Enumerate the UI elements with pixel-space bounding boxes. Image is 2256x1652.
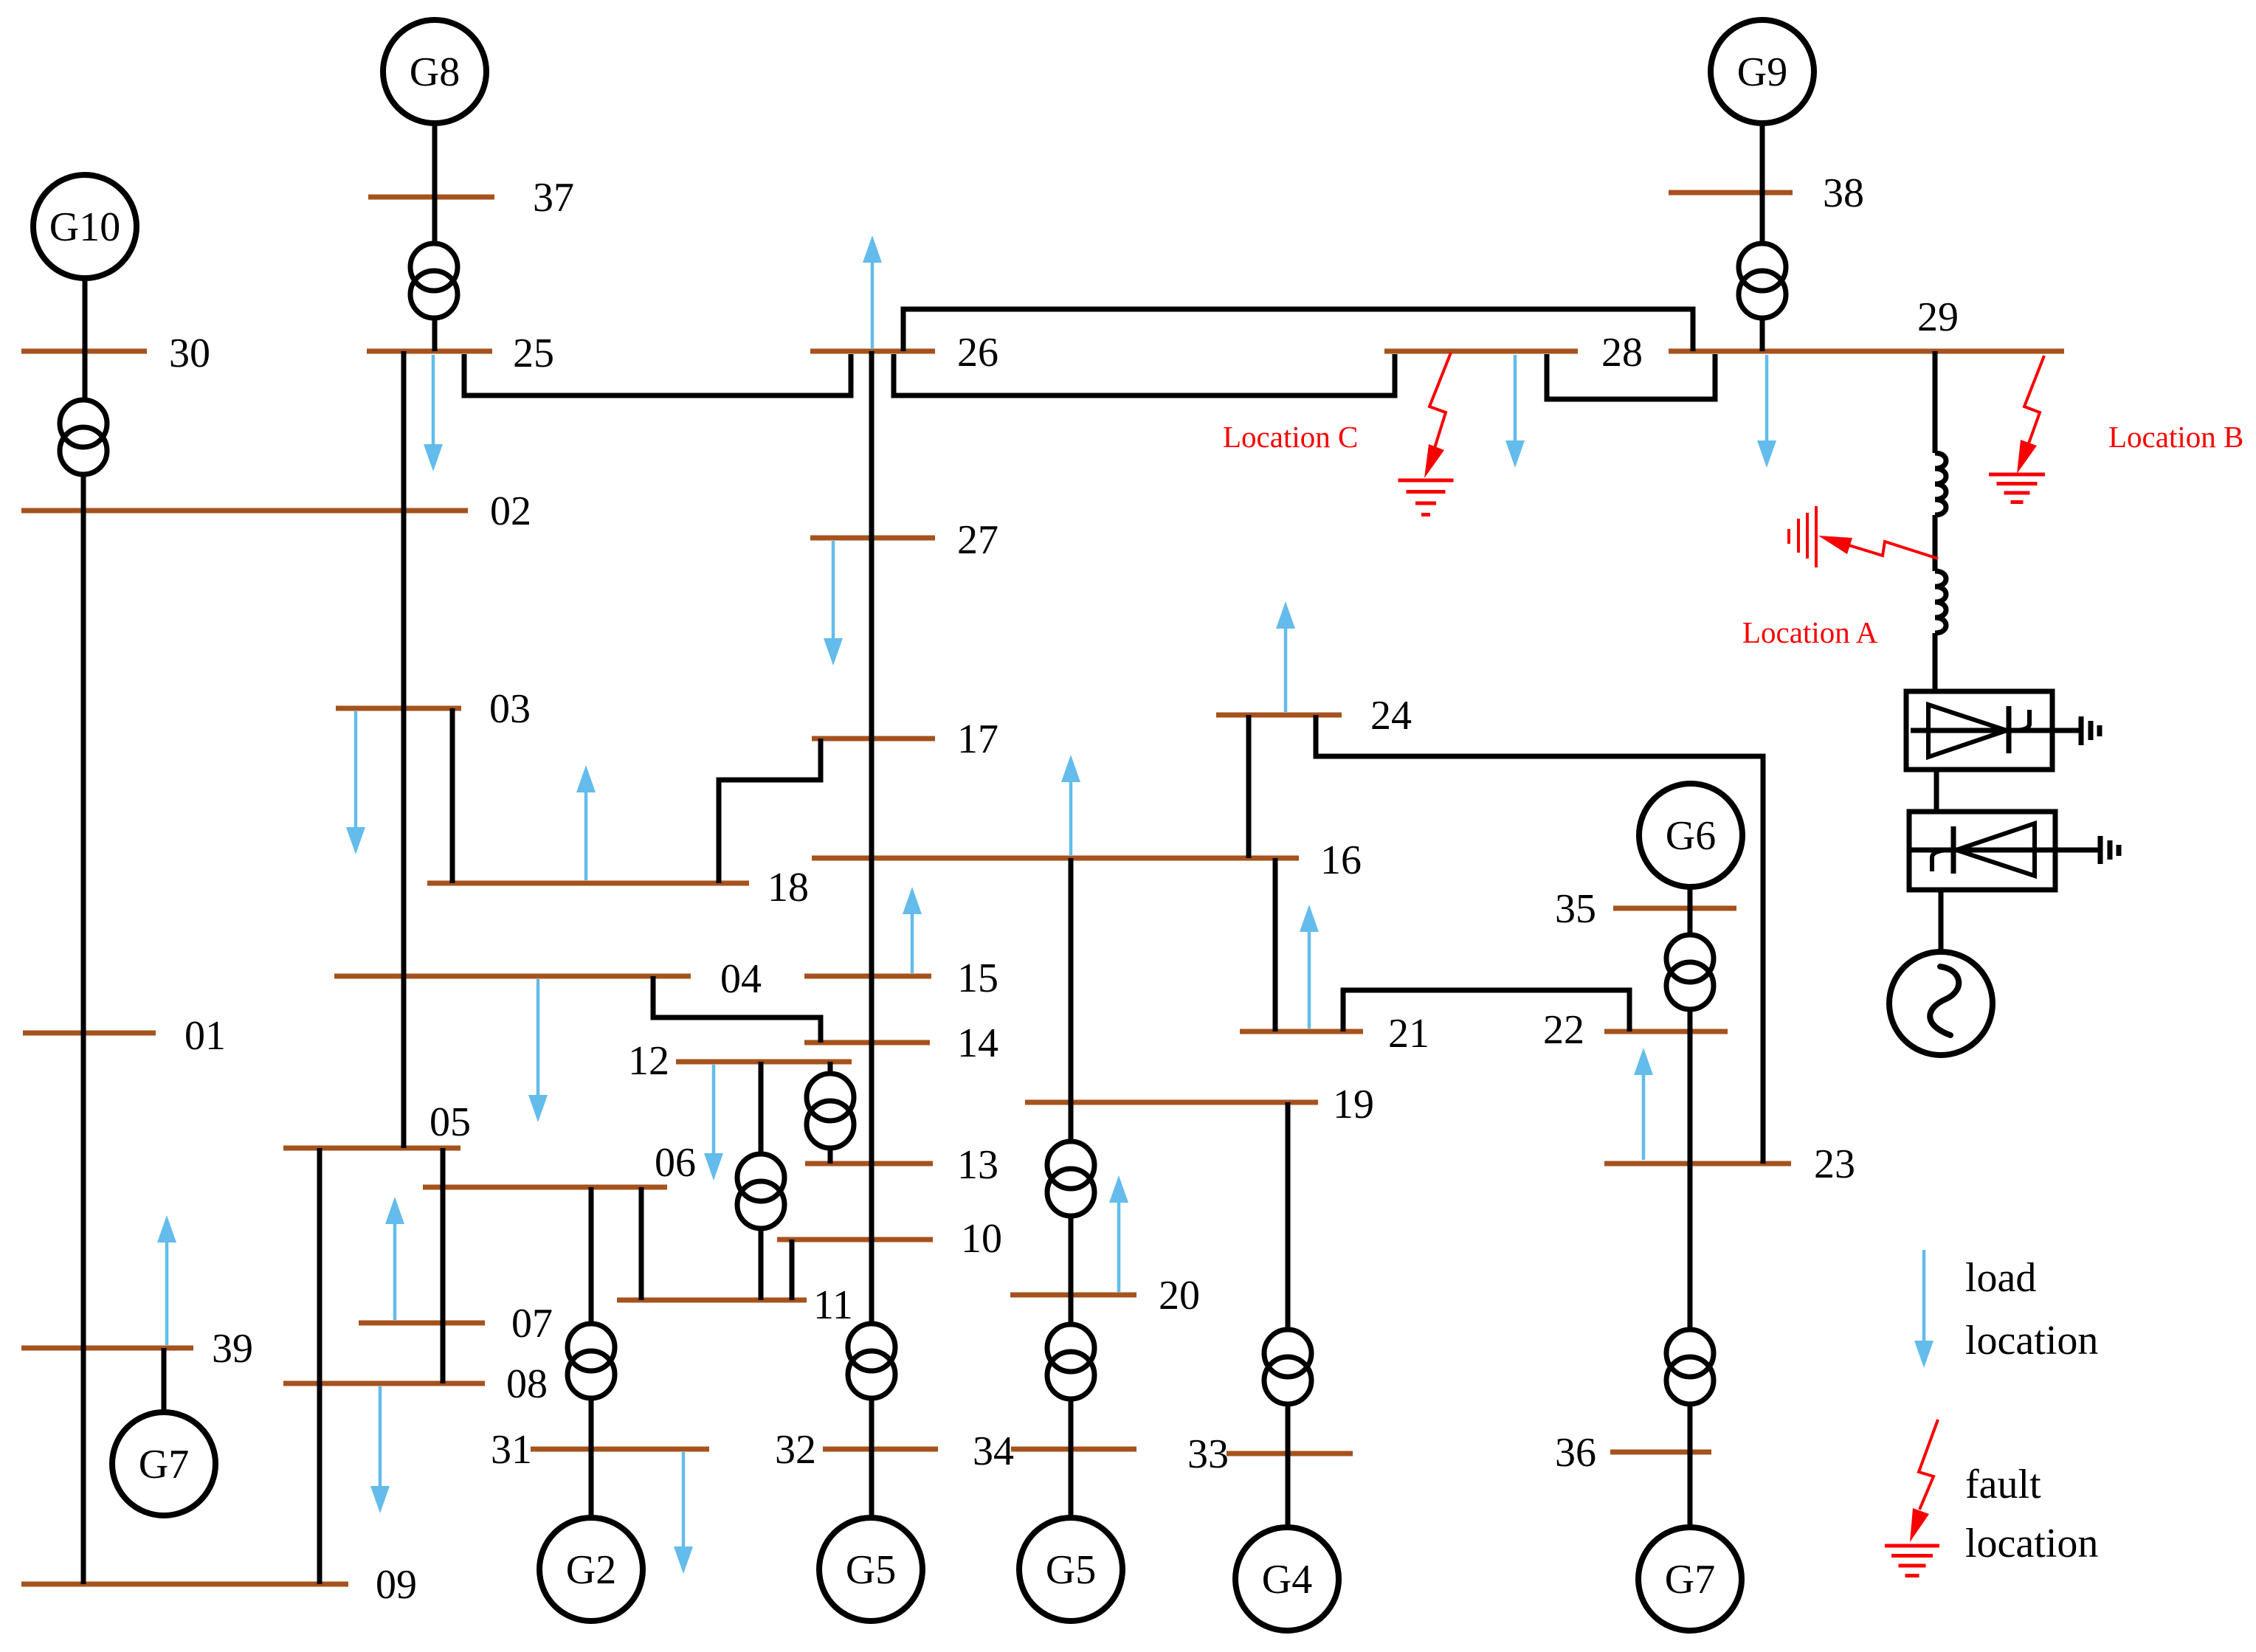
transformer T 12-13 (807, 1074, 854, 1148)
bus 29 (1669, 294, 2064, 351)
transformer T 35-22 (1666, 935, 1714, 1009)
svg-text:16: 16 (1320, 837, 1362, 883)
bus 24 (1216, 693, 1412, 739)
converter valve U2 (1909, 812, 2100, 890)
wire 21-22 (1343, 990, 1629, 1031)
bus 18 (427, 865, 809, 910)
wire 16-19-T-20 (1069, 858, 1074, 1325)
wire G6-35-22-23 chain (1688, 887, 1693, 1164)
load arrow bus03 (346, 711, 365, 854)
legend fault bolt (1910, 1420, 1938, 1542)
bus 30 (21, 331, 210, 376)
wire bus26-27-17-15-14-13-10 trunk (869, 351, 875, 1324)
wire 12-T-13 (828, 1062, 833, 1164)
wire 05-09 (317, 1148, 322, 1584)
svg-text:32: 32 (775, 1427, 816, 1473)
svg-text:27: 27 (957, 517, 998, 563)
wire 26-28 (894, 354, 1395, 395)
wire 24-16 (1246, 715, 1252, 858)
bus 03 (336, 686, 531, 732)
svg-text:18: 18 (767, 865, 809, 910)
bus 15 (804, 955, 998, 1001)
svg-text:G5: G5 (1046, 1547, 1096, 1593)
wire bus38-T-bus29 (1760, 193, 1765, 351)
svg-text:03: 03 (489, 686, 531, 732)
wire reactor to converter 1 (1933, 633, 1938, 691)
svg-text:09: 09 (376, 1562, 417, 1608)
svg-text:G8: G8 (410, 49, 460, 95)
svg-text:G4: G4 (1262, 1557, 1312, 1603)
wire 23-T-36-G7 chain (1688, 1164, 1693, 1527)
bus 04 (334, 956, 762, 1002)
transformer T 23-36 (1666, 1330, 1714, 1404)
svg-text:Location C: Location C (1223, 420, 1358, 454)
svg-text:38: 38 (1823, 170, 1864, 216)
svg-text:28: 28 (1601, 330, 1643, 376)
generator G5 (7) (1019, 1518, 1122, 1621)
bus 14 (804, 1020, 998, 1066)
wire 12-T-11 (759, 1062, 764, 1300)
wire T13-32 to bus32 and G5 (869, 1396, 875, 1518)
generator G7 (4) (112, 1412, 215, 1516)
svg-text:G7: G7 (1665, 1557, 1715, 1603)
bus 19 (1025, 1082, 1374, 1127)
bus 28 (1384, 330, 1643, 376)
bus 38 (1669, 170, 1864, 216)
wire 04-14 (653, 976, 821, 1043)
svg-text:01: 01 (184, 1013, 226, 1059)
wire 06-11 (639, 1187, 644, 1300)
wire G10-bus30-T-bus02 (83, 278, 85, 511)
ground (Location C) (1398, 480, 1454, 515)
bus 23 (1604, 1141, 1855, 1187)
svg-text:G6: G6 (1666, 813, 1716, 859)
bus 21 (1240, 1011, 1429, 1057)
bus 10 (777, 1216, 1002, 1262)
svg-text:G10: G10 (49, 204, 120, 250)
bus 36 (1555, 1430, 1711, 1476)
bus 22 (1543, 1007, 1728, 1053)
svg-text:29: 29 (1917, 294, 1959, 340)
wire 28-29 (lower) (1547, 354, 1715, 399)
svg-text:30: 30 (169, 331, 210, 376)
svg-text:14: 14 (957, 1020, 998, 1066)
svg-text:17: 17 (957, 716, 998, 762)
wire 26-29 (upper) (903, 309, 1693, 351)
load arrow bus39 (157, 1215, 176, 1345)
load arrow bus12 (704, 1065, 723, 1181)
svg-text:31: 31 (491, 1427, 532, 1473)
svg-text:Location B: Location B (2108, 420, 2243, 454)
generator G9 (2) (1711, 20, 1814, 123)
bus 08 (283, 1361, 548, 1407)
svg-text:37: 37 (533, 175, 574, 221)
bus 37 (368, 175, 574, 221)
load arrow bus07 (385, 1197, 404, 1320)
generator G10 (0) (33, 175, 137, 278)
bus 34 (973, 1428, 1136, 1474)
wire G9-bus38 (1760, 123, 1765, 193)
fault bolt Location A (1818, 536, 1938, 559)
svg-text:fault: fault (1965, 1462, 2041, 1507)
load arrow bus27 (824, 541, 843, 666)
legend ground (1885, 1546, 1939, 1576)
generator G4 (8) (1235, 1527, 1339, 1631)
wire G8-bus37 (432, 123, 438, 197)
svg-text:34: 34 (973, 1428, 1014, 1474)
bus 20 (1010, 1273, 1200, 1319)
svg-text:13: 13 (957, 1142, 998, 1188)
svg-text:19: 19 (1333, 1082, 1374, 1127)
bus 25 (367, 331, 554, 376)
load arrow bus04 (528, 979, 548, 1122)
bus 16 (812, 837, 1362, 883)
transformer T 20-34 (1047, 1324, 1094, 1399)
generator G6 (3) (1639, 784, 1742, 887)
load arrow bus23 (1634, 1048, 1653, 1160)
bus 12 (628, 1038, 852, 1084)
svg-text:24: 24 (1370, 693, 1412, 739)
transformer T 30-02 (60, 400, 107, 474)
load arrow bus16 (1061, 755, 1080, 855)
smoothing reactor L1 (1935, 453, 1946, 515)
wire U2 to AC source (1939, 890, 1944, 953)
wire T-34-G5 chain (1069, 1399, 1074, 1518)
svg-text:21: 21 (1388, 1011, 1429, 1057)
transformer T 37-25 (410, 243, 458, 318)
bus 13 (805, 1142, 998, 1188)
load arrow bus15 (903, 887, 922, 973)
wire 25-26 (464, 354, 851, 395)
svg-text:G5: G5 (846, 1547, 896, 1593)
ground (converter U1) (2081, 716, 2100, 745)
wire 03-18 (450, 708, 455, 883)
load arrow bus29 (1757, 355, 1776, 468)
svg-text:05: 05 (430, 1099, 471, 1145)
generator G2 (5) (539, 1518, 643, 1621)
transformer T 13-32 (848, 1324, 895, 1398)
bus 02 (21, 488, 531, 534)
bus 33 (1187, 1431, 1353, 1477)
svg-text:33: 33 (1187, 1431, 1229, 1477)
bus 11 (617, 1282, 853, 1328)
svg-text:Location A: Location A (1742, 615, 1878, 649)
ground (Location B) (1989, 474, 2045, 502)
bus 27 (810, 517, 998, 563)
svg-text:load: load (1965, 1255, 2036, 1301)
transformer T 19-33 (1264, 1330, 1311, 1404)
svg-text:12: 12 (628, 1038, 669, 1084)
load arrow bus08 (370, 1386, 390, 1513)
load arrow bus31 (674, 1452, 693, 1574)
bus 39 (21, 1326, 253, 1372)
AC source (1889, 952, 1993, 1055)
bus 05 (283, 1099, 471, 1148)
svg-text:35: 35 (1555, 886, 1596, 932)
smoothing reactor L2 (1935, 571, 1946, 633)
bus 01 (23, 1013, 226, 1059)
wire 39-G7 (162, 1348, 167, 1412)
fault bolt Location B (2017, 356, 2044, 474)
svg-text:10: 10 (961, 1216, 1002, 1262)
wire between reactors (1933, 515, 1938, 571)
svg-text:G2: G2 (566, 1547, 616, 1593)
wire 05-07-08 (441, 1148, 446, 1383)
svg-text:20: 20 (1159, 1273, 1200, 1319)
svg-text:06: 06 (655, 1140, 696, 1186)
bus 07 (359, 1301, 553, 1347)
wire bus37-T-bus25 (432, 197, 438, 351)
svg-text:25: 25 (513, 331, 554, 376)
svg-text:G9: G9 (1737, 49, 1787, 95)
wire 17-18 (719, 739, 821, 883)
load arrow bus28 (1505, 355, 1525, 468)
wire bus29 to smoothing reactor (1933, 351, 1938, 453)
svg-text:location: location (1965, 1318, 2098, 1364)
legend load arrow (1914, 1250, 1934, 1368)
wire bus02-bus01-bus39-bus09 (left trunk) (81, 511, 86, 1584)
generator G8 (1) (383, 20, 486, 123)
wire U1-U2 (1934, 770, 1939, 810)
svg-text:G7: G7 (139, 1442, 189, 1487)
wire 10-11 (790, 1240, 795, 1300)
svg-text:36: 36 (1555, 1430, 1596, 1476)
transformer T 38-29 (1739, 243, 1786, 318)
transformer T 12-11 (737, 1154, 784, 1228)
svg-text:04: 04 (720, 956, 762, 1002)
svg-text:39: 39 (212, 1326, 253, 1372)
wire 19-T-33-G4 chain (1286, 1102, 1291, 1527)
fault bolt Location C (1424, 353, 1451, 478)
bus 17 (812, 716, 998, 762)
svg-text:26: 26 (957, 330, 998, 376)
svg-text:11: 11 (813, 1282, 853, 1328)
svg-text:02: 02 (490, 488, 531, 534)
svg-text:location: location (1965, 1521, 2098, 1566)
wire bus25-02-03-04-05 trunk (401, 351, 407, 1148)
load arrow bus20 (1109, 1175, 1128, 1292)
transformer T 06-31 (568, 1324, 615, 1398)
svg-text:23: 23 (1814, 1141, 1855, 1187)
bus 06 (423, 1140, 696, 1187)
load arrow bus24 (1276, 601, 1295, 712)
load arrow bus18 (576, 765, 596, 880)
wire 16-21 (1273, 858, 1278, 1031)
load arrow bus26 (863, 235, 882, 349)
ground (converter U2) (2100, 836, 2119, 864)
bus 35 (1555, 886, 1736, 932)
load arrow bus21 (1300, 905, 1319, 1029)
load arrow bus25 (424, 355, 443, 471)
svg-text:22: 22 (1543, 1007, 1584, 1053)
bus 32 (775, 1427, 938, 1473)
svg-text:07: 07 (511, 1301, 553, 1347)
converter valve U1 (1906, 691, 2081, 770)
bus 09 (21, 1562, 417, 1608)
svg-text:15: 15 (957, 955, 998, 1001)
bus 31 (491, 1427, 709, 1473)
generator G5 (6) (819, 1518, 922, 1621)
bus 26 (810, 330, 998, 376)
svg-text:08: 08 (506, 1361, 548, 1407)
generator G7 (9) (1638, 1527, 1742, 1631)
transformer T 19-20 (1047, 1141, 1094, 1216)
wire 24-23 (1316, 715, 1763, 1164)
ground wall (Location A) (1789, 506, 1816, 567)
wire 06-T-31-G2 chain (589, 1187, 594, 1518)
